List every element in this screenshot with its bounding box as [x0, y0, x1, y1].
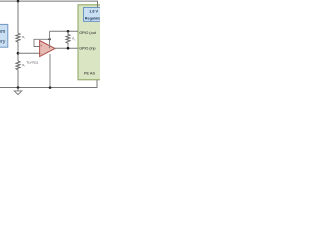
node on top rail: [17, 0, 20, 3]
node ground left: [17, 86, 20, 89]
wire R3 bottom to output wire: [67, 44, 69, 48]
resistor R2: [16, 61, 20, 71]
node divider tap: [17, 52, 20, 55]
wire GPIO output line: [50, 30, 78, 32]
MCU block (pale green box, cut off at right): [78, 5, 108, 80]
node ground mid: [49, 86, 52, 89]
svg-text:From: From: [0, 29, 5, 35]
svg-text:+: +: [40, 44, 42, 48]
node output: [67, 47, 70, 50]
wire comparator output to GPIO input: [55, 47, 79, 49]
wire output node rising to GPIO output line: [49, 31, 51, 48]
background: [0, 0, 100, 100]
wire tap to inverting input: [18, 52, 40, 54]
top supply rail wire: [0, 1, 98, 7]
bottom ground rail wire: [0, 80, 97, 88]
resistor R1: [16, 33, 20, 43]
svg-text:TLV7011: TLV7011: [26, 61, 38, 65]
wire from top rail down to R1: [17, 1, 19, 33]
svg-text:PE AS: PE AS: [84, 71, 95, 75]
ground symbol: [17, 88, 19, 91]
wire comparator ground down to rail: [49, 54, 51, 88]
svg-text:1.8 V: 1.8 V: [89, 10, 98, 14]
svg-text:GPIO (out: GPIO (out: [79, 31, 96, 35]
wire R2 to ground rail: [17, 71, 19, 88]
wire non-inverting input feedback branch: [34, 39, 50, 46]
svg-text:Battery: Battery: [0, 39, 6, 45]
op-amp U1 TLV7011 comparator: [40, 41, 55, 57]
svg-text:1: 1: [24, 38, 25, 40]
wire R1 to R2: [17, 43, 19, 61]
svg-text:GPIO (inp: GPIO (inp: [79, 47, 95, 51]
resistor R3 pull-up: [66, 31, 70, 44]
svg-text:3: 3: [74, 39, 75, 41]
svg-text:Regulator: Regulator: [85, 16, 100, 20]
node pullup top: [67, 30, 70, 33]
svg-text:2: 2: [24, 66, 25, 68]
battery source box (cut off at left): [0, 24, 8, 47]
node feedback: [48, 38, 50, 40]
1.8V regulator block inside MCU: [84, 8, 108, 22]
